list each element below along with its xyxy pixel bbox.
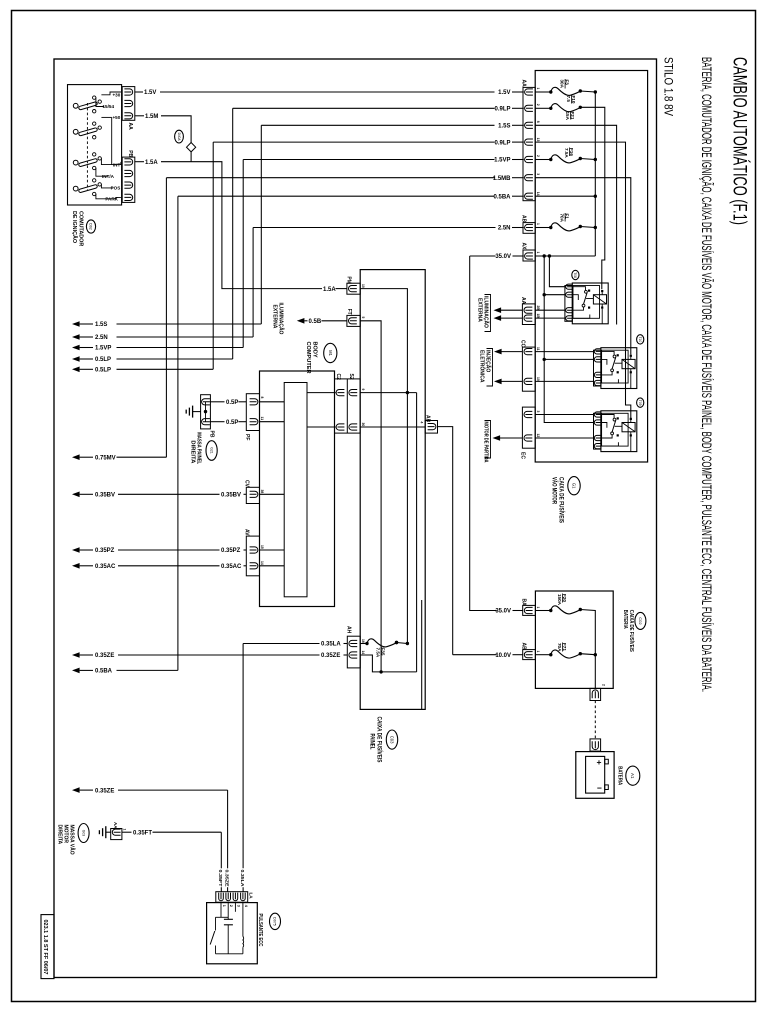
ignition switch contact row 3 (73, 160, 78, 165)
connector BA (523, 605, 536, 615)
svg-text:G1: G1 (571, 483, 576, 489)
svg-text:3: 3 (536, 411, 540, 413)
wire 2.5N to AB (253, 227, 495, 229)
svg-text:10: 10 (536, 377, 540, 381)
svg-text:C03: C03 (389, 736, 394, 744)
battery terminal (590, 739, 601, 751)
svg-text:13: 13 (536, 138, 540, 142)
ignition oval D02 (86, 220, 95, 233)
massa painel oval G21 (206, 441, 217, 461)
svg-text:M1: M1 (328, 350, 333, 356)
svg-text:D40A: D40A (177, 133, 181, 142)
svg-text:BATERIA: BATERIA (622, 610, 628, 629)
pulsante internal pin stubs (220, 902, 222, 917)
svg-text:1.5VP: 1.5VP (95, 346, 111, 352)
vertical wire 1.5MB drop to 0.75MV (165, 178, 167, 458)
wire AB to battery fusebox 10.0V (438, 427, 453, 655)
wire 10.0V to AB (453, 654, 497, 656)
svg-text:8: 8 (536, 121, 540, 123)
svg-text:1.5M: 1.5M (145, 114, 158, 120)
svg-text:15A: 15A (565, 112, 570, 121)
relay T09 label oval (637, 398, 644, 407)
body computer inner module (284, 383, 307, 597)
connector AH (347, 636, 360, 668)
svg-text:1: 1 (536, 252, 540, 254)
wire 1.5M with corner (135, 115, 144, 117)
svg-text:1.5S: 1.5S (95, 322, 107, 328)
svg-text:0.35BV: 0.35BV (221, 493, 241, 499)
battery A1 body (576, 752, 614, 799)
ignition connector block AA (122, 87, 135, 121)
svg-text:BATERIA, COMUTADOR DE IGNIÇÃO,: BATERIA, COMUTADOR DE IGNIÇÃO, CAIXA DE … (699, 57, 714, 692)
svg-text:0.35FT: 0.35FT (217, 870, 223, 887)
svg-text:11: 11 (536, 347, 540, 351)
svg-text:S2: S2 (348, 374, 354, 380)
svg-text:38: 38 (260, 490, 264, 494)
wire 0.5P upper (210, 401, 224, 403)
svg-text:0.35ZE: 0.35ZE (95, 788, 114, 794)
svg-text:1.5A: 1.5A (323, 287, 336, 293)
ignition switch contact row 1 (73, 103, 78, 108)
connector PM (347, 283, 360, 294)
svg-text:AV: AV (244, 529, 250, 536)
svg-text:T09: T09 (638, 400, 642, 406)
ignition internal wire INT (101, 158, 121, 164)
dashed battery cable (594, 701, 596, 739)
relay T10 label oval (637, 335, 644, 344)
AX branch to relay2 t2 (544, 358, 593, 360)
svg-text:35.0V: 35.0V (495, 254, 511, 260)
wire 0.35LA from corner to AH (243, 643, 319, 645)
svg-text:1.5MB: 1.5MB (493, 176, 511, 182)
svg-text:EXTERNA: EXTERNA (271, 305, 277, 329)
pulsante switch (215, 917, 217, 930)
ignition internal wire PARK (96, 194, 121, 199)
fusebox G1 connector AA (523, 87, 535, 200)
svg-text:1: 1 (122, 829, 126, 831)
ground terminal block AA (111, 829, 122, 840)
fusebox G1 connector CC (522, 347, 535, 391)
svg-text:AB: AB (425, 415, 431, 423)
fuse F35 7.5A (360, 643, 367, 645)
left arrow wire 0.5LP y359 (72, 356, 80, 362)
svg-text:7.5A: 7.5A (564, 148, 569, 158)
svg-text:D02: D02 (89, 223, 93, 230)
relay T10 body (601, 348, 637, 389)
svg-text:INT/A: INT/A (102, 174, 115, 179)
svg-text:0.35LA: 0.35LA (239, 870, 245, 888)
ground symbol massa painel (192, 406, 194, 418)
svg-text:5: 5 (361, 317, 365, 319)
svg-text:DE IGNIÇÃO: DE IGNIÇÃO (71, 211, 78, 243)
wire CV to module (260, 493, 285, 495)
fuse F1 70A (535, 227, 551, 229)
connector CV (246, 487, 259, 503)
wire CC t2 to relay2 t4 (535, 380, 593, 382)
wire PF t2 to module (260, 421, 285, 423)
svg-text:AA: AA (520, 297, 526, 305)
left arrow wire 0.35ZE bottom (72, 787, 80, 793)
fuse F10 7.5 (535, 107, 551, 109)
wire 1.5A ignition PB to body computer PM (135, 161, 144, 163)
relay T08 body (572, 283, 608, 324)
svg-text:0.35ZE: 0.35ZE (95, 653, 114, 659)
connector FT (347, 315, 360, 326)
pulsante internal rail (216, 916, 229, 918)
wire C2 row1 to junction (360, 392, 417, 394)
svg-text:COMPUTER: COMPUTER (305, 342, 311, 374)
svg-text:STILO 1.8 8V: STILO 1.8 8V (662, 57, 674, 116)
svg-text:14: 14 (536, 192, 540, 196)
battery fusebox bottom terminal (590, 688, 601, 700)
svg-text:PF: PF (244, 434, 250, 440)
battery oval A1 (626, 766, 640, 785)
battery fusebox oval C02 (635, 612, 646, 629)
svg-text:0.9LP: 0.9LP (494, 107, 510, 113)
svg-text:G03: G03 (81, 830, 85, 837)
wire 0.9LP row4 (213, 141, 494, 143)
svg-text:PB: PB (127, 150, 133, 157)
fusebox G1 oval (568, 477, 580, 495)
svg-text:CAIXA DE FUSÍVEIS: CAIXA DE FUSÍVEIS (628, 610, 636, 652)
svg-text:DIREITA: DIREITA (57, 825, 63, 845)
svg-text:11: 11 (260, 417, 264, 421)
connector AB battery box (523, 650, 536, 660)
relay T08 label oval (572, 270, 579, 279)
svg-text:T08: T08 (573, 272, 577, 278)
ignition switch dashed axis (86, 103, 88, 190)
ground PB block massa painel (201, 395, 211, 429)
svg-text:30: 30 (361, 423, 365, 427)
arrow iluminacao externa 1 (494, 307, 502, 313)
svg-text:0.5BA: 0.5BA (493, 194, 511, 200)
massa vao motor oval G03 (78, 824, 89, 843)
left arrow wire 0.35AC (72, 563, 80, 569)
svg-text:12: 12 (536, 434, 540, 438)
svg-text:3: 3 (536, 173, 540, 175)
svg-text:BODY: BODY (312, 342, 318, 358)
ignition connector block PB (122, 157, 135, 202)
svg-text:0.35AC: 0.35AC (221, 564, 242, 570)
wire FT internal down (360, 321, 381, 672)
bracket injecao eletronica (487, 349, 493, 387)
svg-text:C02: C02 (638, 617, 643, 625)
bracket iluminacao externa (485, 295, 491, 332)
svg-text:2B: 2B (536, 306, 540, 311)
svg-text:+: + (597, 757, 602, 767)
svg-text:A1: A1 (630, 773, 635, 779)
vertical wire 2.5N drop (252, 228, 254, 338)
svg-text:0.35LA: 0.35LA (321, 642, 341, 648)
wire 1.5V ignition to fusebox (135, 91, 143, 93)
relay T08 switch contact (573, 287, 586, 291)
svg-text:AA: AA (521, 80, 527, 88)
svg-text:EXTERNA: EXTERNA (476, 298, 482, 322)
svg-text:023.1 1.8 ST FF 06/07: 023.1 1.8 ST FF 06/07 (42, 920, 48, 975)
svg-text:COMUTADOR: COMUTADOR (77, 211, 83, 246)
svg-text:PM: PM (346, 276, 352, 284)
svg-text:16: 16 (361, 639, 365, 643)
fusebox G1 connector AX (523, 250, 535, 261)
svg-text:8: 8 (260, 397, 264, 399)
svg-text:CAMBIO AUTOMÁTICO (F.1): CAMBIO AUTOMÁTICO (F.1) (729, 57, 750, 225)
arrow iluminacao externa at FT (297, 318, 305, 324)
svg-text:0.35PZ: 0.35PZ (95, 548, 115, 554)
left arrow wire 0.35PZ (72, 547, 80, 553)
pulsante ECC connector LA (216, 892, 248, 903)
svg-text:0.5BA: 0.5BA (95, 669, 113, 675)
svg-text:0.5B: 0.5B (309, 319, 322, 325)
wire EC t2 to relay3 t3 (535, 437, 593, 439)
svg-text:PAINEL: PAINEL (368, 734, 374, 750)
arrow motor de partida (493, 435, 501, 441)
vertical wire 0.5BA drop (177, 196, 179, 670)
ignition switch contact row 2 (73, 129, 78, 134)
wire row4 inside fusebox (535, 142, 631, 419)
svg-text:+30: +30 (113, 93, 121, 98)
ignition internal wire POS (101, 184, 113, 188)
svg-text:0.35PZ: 0.35PZ (221, 548, 241, 554)
svg-text:+50: +50 (113, 115, 121, 120)
ignition switch contact row 4 (73, 186, 78, 191)
relay T10 switch contact (602, 351, 615, 355)
AX branch to relay1 t2 (544, 294, 565, 296)
svg-text:1.5VP: 1.5VP (494, 158, 510, 164)
left arrow wire 2.5N y337 (72, 334, 80, 340)
svg-text:14: 14 (260, 561, 264, 565)
left arrow wire 0.35ZE long (72, 652, 80, 658)
svg-text:ELETRÔNICA: ELETRÔNICA (478, 350, 486, 383)
svg-text:MASSA VÃO: MASSA VÃO (69, 825, 76, 855)
svg-text:BATERIA: BATERIA (617, 766, 623, 785)
wire row2 to relay1 coil (580, 107, 605, 289)
pulsante bottom rail (216, 953, 243, 955)
left arrow wire 0.5BA (72, 668, 80, 674)
wire 1.5VP row5 (243, 159, 494, 161)
bracket motor de partida (485, 421, 491, 459)
svg-text:AH: AH (346, 626, 352, 634)
svg-text:0.35BV: 0.35BV (95, 493, 115, 499)
ground symbol massa vao motor (105, 826, 107, 838)
svg-text:AB: AB (521, 215, 527, 223)
svg-text:1.5S: 1.5S (498, 124, 510, 130)
wire row3 inside fusebox (535, 125, 616, 324)
wire relay1 t3 to AA lower (535, 309, 565, 311)
svg-text:LA: LA (248, 893, 253, 900)
splice oval D40A label (175, 130, 184, 143)
svg-text:35.0V: 35.0V (495, 609, 511, 615)
fuse F3 30A (535, 91, 551, 93)
connector PF (246, 394, 259, 431)
svg-text:14: 14 (361, 651, 365, 655)
relay T09 connector strip (594, 413, 601, 449)
svg-text:1: 1 (222, 905, 226, 907)
svg-text:FT: FT (346, 309, 352, 315)
wire AH t2 internal ZE path (360, 655, 416, 672)
svg-text:15: 15 (260, 545, 264, 549)
left arrow wire 0.75MV y457.2 (72, 454, 80, 460)
ignition internal wire INT/A (96, 168, 108, 176)
fusebox G1 connector AB (523, 223, 535, 234)
AX branch down to relays (544, 256, 593, 423)
svg-text:7.5A: 7.5A (376, 648, 381, 658)
relay T09 coil (622, 423, 635, 432)
left arrow wire 0.5LP y369.3 (72, 367, 80, 373)
wire 1.5S row3 (261, 124, 494, 126)
svg-text:AB: AB (521, 643, 527, 651)
svg-text:1: 1 (536, 88, 540, 90)
left arrow wire 0.35BV (72, 492, 80, 498)
svg-text:AA: AA (127, 123, 133, 131)
relay T08 coil (593, 295, 606, 304)
vertical 0.35FT to pulsante (220, 832, 222, 868)
svg-text:2: 2 (536, 155, 540, 157)
vertical 0.35LA to pulsante (242, 644, 244, 869)
arrow iluminacao externa 2 (494, 315, 502, 321)
wire AV t2 to module (260, 565, 285, 567)
fuse F20 150A (535, 610, 550, 612)
svg-text:30A: 30A (559, 80, 564, 89)
svg-text:2.5N: 2.5N (498, 226, 511, 232)
relay T09 body (601, 411, 637, 452)
svg-text:EC: EC (520, 452, 526, 459)
svg-text:CV: CV (244, 480, 250, 488)
svg-text:MOTOR DE PARTIDA: MOTOR DE PARTIDA (482, 422, 488, 463)
wire AV t1 to module (260, 549, 285, 551)
svg-text:10.0V: 10.0V (495, 653, 511, 659)
wire module to C2 row2 (307, 426, 336, 428)
fusebox G1 body (535, 71, 647, 463)
svg-text:0.5LP: 0.5LP (95, 357, 111, 363)
svg-text:0.5P: 0.5P (226, 420, 238, 426)
wire CC t1 to relay2 (535, 351, 593, 353)
svg-text:PB: PB (209, 431, 215, 438)
connector AV (246, 536, 259, 576)
wire row7 inside fusebox (535, 195, 595, 197)
wire 0.35FT (122, 831, 132, 833)
battery fusebox C02 body (535, 591, 613, 688)
svg-text:0.5LP: 0.5LP (95, 368, 111, 374)
svg-text:D075: D075 (273, 917, 277, 926)
wire PM internal to F35 (360, 289, 407, 644)
svg-text:150A: 150A (557, 594, 562, 606)
wire 1.5MB row6 (166, 177, 494, 179)
svg-text:1: 1 (536, 607, 540, 609)
svg-text:9: 9 (361, 389, 365, 391)
ignition internal wire +30 (101, 92, 121, 95)
vertical 416.6 to ZE path (416, 393, 418, 672)
pulsante oval D075 (270, 913, 281, 929)
wire module to C2 row1 (307, 392, 336, 394)
connector C2 S2 block (335, 379, 361, 433)
arrow injecao 1 (494, 349, 502, 355)
left arrow wire 1.5S y324 (72, 321, 80, 327)
svg-text:70A: 70A (557, 643, 562, 652)
svg-text:0.35ZE: 0.35ZE (224, 870, 230, 888)
svg-text:T10: T10 (638, 336, 642, 342)
fuse F71 70A (535, 654, 550, 656)
wire 35.0V to AX (470, 255, 496, 257)
relay T08 connector strip (565, 286, 572, 322)
svg-text:0.35AC: 0.35AC (95, 564, 116, 570)
fusebox G1 connector EC (522, 407, 535, 448)
vertical wire row4 drop (212, 142, 214, 369)
svg-text:3: 3 (236, 905, 240, 907)
svg-text:ILUMINAÇÃO: ILUMINAÇÃO (482, 296, 489, 328)
svg-text:CAIXA DE FUSÍVEIS: CAIXA DE FUSÍVEIS (375, 717, 383, 763)
svg-text:0.5P: 0.5P (226, 400, 238, 406)
AX branch to relay1 t1 (549, 256, 565, 287)
vertical wire row2 drop (232, 108, 234, 359)
svg-text:PULSANTE ECC: PULSANTE ECC (257, 914, 263, 947)
relay T09 switch contact (602, 415, 615, 419)
wire row6 inside fusebox (535, 178, 631, 355)
relay T10 connector strip (594, 350, 601, 386)
vertical wire 1.5VP drop (242, 160, 244, 348)
wire EC t1 to relay3 (535, 414, 593, 416)
svg-text:−: − (597, 783, 602, 793)
main bus vertical in fusebox (594, 92, 596, 256)
ignition internal bus +50 to INT (111, 117, 113, 164)
svg-text:G21: G21 (209, 447, 213, 454)
arrow injecao 2 (494, 379, 502, 385)
fusebox G1 connector AA lower (iluminacao) (522, 304, 535, 325)
vertical wire 1.5S drop (260, 125, 262, 324)
left arrow wire 1.5VP y347.5 (72, 345, 80, 351)
svg-text:ILUMINAÇÃO: ILUMINAÇÃO (277, 303, 284, 335)
wire 35.0V from AX to BA (470, 256, 497, 611)
svg-text:INJEÇÃO: INJEÇÃO (484, 350, 491, 372)
svg-text:0.75MV: 0.75MV (95, 455, 116, 461)
ignition internal wire +50 (101, 116, 111, 118)
svg-text:0.35ZE: 0.35ZE (321, 653, 340, 659)
wire bus to bottom terminal (594, 655, 596, 689)
svg-text:AA: AA (113, 822, 118, 829)
svg-text:VÃO MOTOR: VÃO MOTOR (550, 477, 557, 504)
svg-text:2.5N: 2.5N (95, 335, 108, 341)
vertical 0.35ZE to pulsante (227, 790, 229, 868)
ignition switch D02 body (68, 85, 122, 205)
inner drawing border frame (54, 59, 657, 978)
svg-text:POS: POS (111, 186, 121, 191)
fuse F16 7.5A (535, 159, 551, 161)
svg-text:DIREITA: DIREITA (189, 440, 195, 463)
svg-text:AX: AX (521, 243, 527, 251)
panel fusebox oval C03 (386, 730, 397, 749)
body computer oval M1 (324, 343, 337, 362)
svg-text:1.5V: 1.5V (144, 90, 156, 96)
svg-text:C2: C2 (335, 374, 341, 381)
splice diamond D40A (187, 143, 196, 152)
relay T10 coil (622, 359, 635, 368)
pulsante ECC body (207, 903, 258, 964)
version box bottom-left (41, 915, 54, 979)
svg-text:BA: BA (521, 599, 527, 607)
panel fusebox C03 body (360, 270, 425, 710)
svg-text:7.5: 7.5 (566, 96, 571, 103)
svg-text:CC: CC (520, 340, 526, 348)
connector AB right side (425, 421, 437, 434)
svg-text:70A: 70A (559, 214, 564, 223)
svg-text:1: 1 (536, 223, 540, 225)
wire 0.9LP row2 (233, 107, 495, 109)
wire C2 row2 to AB (360, 426, 425, 428)
svg-text:10: 10 (361, 284, 365, 288)
svg-text:CAIXA DE FUSÍVEIS: CAIXA DE FUSÍVEIS (557, 477, 565, 523)
svg-text:0.9LP: 0.9LP (494, 140, 510, 146)
wire AX 35.0V inside fusebox (535, 255, 595, 257)
mystery vertical inside C03 (421, 600, 423, 709)
